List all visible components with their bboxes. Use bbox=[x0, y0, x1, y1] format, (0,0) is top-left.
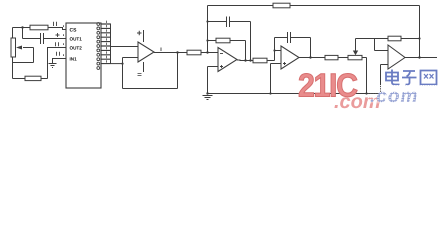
wire op-amp4 + input to rail bbox=[381, 65, 389, 94]
op-amp1 V+ stub bbox=[143, 30, 145, 42]
junction dot R8 return bbox=[418, 37, 420, 39]
label + (U3) bbox=[220, 65, 223, 68]
op-amp U3 bbox=[218, 48, 237, 72]
junction dot R4 return bbox=[244, 59, 246, 61]
label = (V-) bbox=[138, 74, 142, 76]
wire final output bbox=[405, 57, 437, 59]
ground rail (bottom) bbox=[208, 93, 381, 95]
left pin number ticks bbox=[63, 25, 65, 56]
wire R6 to op-amp3 node bbox=[267, 38, 275, 61]
wire bus bottom to loop bbox=[111, 63, 123, 65]
tick label above output bbox=[160, 48, 162, 52]
resistor feedback row (op-amp2) bbox=[208, 41, 246, 61]
op-amp U4 bbox=[281, 46, 299, 69]
wire bus to op-amp1 inverting input bbox=[111, 46, 139, 48]
svg-text:OUT1: OUT1 bbox=[70, 37, 82, 42]
svg-text:CS: CS bbox=[70, 28, 77, 34]
label + (U4) bbox=[283, 62, 286, 65]
DAC chip U1 bbox=[66, 23, 101, 88]
pin numbers (right, tiny dashes) bbox=[106, 21, 108, 63]
watermark 21IC (red) bbox=[298, 67, 357, 104]
label 11 (OUT2 wire) bbox=[56, 42, 59, 46]
resistor R6 (stage3 input) bbox=[253, 58, 267, 63]
label + (C1) bbox=[56, 33, 60, 37]
capacitor C2 bbox=[227, 17, 230, 28]
pin label IN1 bbox=[70, 57, 77, 62]
wire op-amp3 output bbox=[299, 57, 325, 59]
capacitor C3 bbox=[288, 32, 291, 43]
resistor R7 (stage4 input) bbox=[325, 55, 338, 59]
junction dot ground rail / op-amp3 bbox=[269, 92, 271, 94]
cap feedback row (op-amp2) bbox=[208, 22, 251, 61]
capacitor C1 (left) bbox=[41, 33, 44, 44]
pin label OUT1 bbox=[70, 37, 82, 42]
watermark .com (blue dotted) bbox=[368, 85, 439, 107]
wire op-amp1 output bbox=[154, 52, 187, 54]
junction dot node/signal bbox=[206, 51, 208, 53]
potentiometer RP1 (left vertical) bbox=[11, 38, 34, 63]
junction dot node/R4 row bbox=[206, 39, 208, 41]
junction dot op-amp3 inverting node bbox=[273, 49, 275, 51]
watermark 子 (blue, drawn) bbox=[402, 71, 417, 85]
wire vertical from junction to cap row bbox=[22, 28, 24, 39]
wire op-amp4 inverting input bbox=[375, 50, 389, 52]
wire R7 to pot bbox=[338, 57, 348, 59]
watermark 网 (blue, drawn) bbox=[421, 71, 437, 85]
label + (V+) bbox=[137, 31, 142, 35]
resistor R8 (op-amp4 feedback) bbox=[388, 36, 401, 41]
junction dot output/global feedback bbox=[418, 56, 420, 58]
pin label OUT2 bbox=[70, 46, 82, 51]
label 11 (IN wire) bbox=[57, 52, 60, 56]
wire op-amp2 + input to ground bbox=[208, 67, 219, 94]
resistor R1 (top-left) bbox=[30, 25, 48, 30]
op-amp U5 bbox=[388, 45, 405, 69]
wire op-amp3 + input to ground bbox=[271, 64, 282, 94]
node dot bbox=[121, 63, 123, 65]
resistor R2 (bottom-left) bbox=[25, 76, 41, 80]
junction dot C2 return bbox=[249, 59, 251, 61]
ground symbol bbox=[203, 96, 213, 100]
wire R3 to node bbox=[201, 52, 218, 54]
resistor R3 (stage2 input) bbox=[187, 50, 201, 55]
wire pot right terminal down to rail bbox=[362, 58, 367, 94]
chip pin circles (right column) bbox=[97, 23, 100, 70]
junction dot ground rail / op-amp2 bbox=[206, 92, 208, 94]
top global feedback row bbox=[208, 6, 420, 58]
node vertical (op-amp2 inverting node) bbox=[207, 6, 209, 53]
wire row C (CS row) bbox=[13, 28, 67, 30]
junction dot node/C2 row bbox=[206, 20, 208, 22]
wire op-amp3 inverting input bbox=[275, 50, 282, 52]
watermark 电 (blue, drawn) bbox=[386, 70, 400, 85]
wire OUT2 loop bbox=[13, 48, 67, 79]
cap feedback row (op-amp3) bbox=[275, 38, 311, 58]
op-amp1 V- stub bbox=[143, 62, 145, 72]
ground (left small) bbox=[49, 64, 57, 68]
wire cap row to OUT1 bbox=[23, 38, 67, 40]
RP2 wiper arrow bbox=[355, 39, 357, 52]
svg-text:IN1: IN1 bbox=[70, 57, 77, 62]
wire IN pin to ground bbox=[53, 59, 67, 64]
label - (U3) bbox=[220, 53, 223, 55]
feedback wire op-amp1 (down / bottom loop) bbox=[123, 53, 178, 89]
node junction dot row C bbox=[21, 26, 23, 28]
resistor R5 (global feedback) bbox=[273, 3, 290, 8]
junction dot output bbox=[176, 51, 178, 53]
junction dot C3 return bbox=[309, 56, 311, 58]
wiper wire to op-amp4 node bbox=[356, 39, 375, 51]
chip right pin stubs bbox=[101, 24, 111, 64]
op-amp U2 (buffer) bbox=[138, 42, 154, 62]
wire pot top to row C bbox=[12, 28, 14, 63]
pin label CS bbox=[70, 28, 77, 34]
svg-text:OUT2: OUT2 bbox=[70, 46, 82, 51]
wire op-amp1 non-inv input bbox=[123, 58, 139, 89]
junction dot ground rail / RP2 bbox=[365, 92, 367, 94]
label 11 (R1) bbox=[54, 22, 57, 26]
bus line right of chip bbox=[110, 24, 112, 64]
wire op-amp2 output bbox=[237, 59, 253, 62]
potentiometer RP2 bbox=[348, 55, 362, 59]
resistor R4 (op-amp2 feedback) bbox=[216, 38, 230, 43]
resistor feedback row (op-amp4) bbox=[375, 38, 420, 40]
